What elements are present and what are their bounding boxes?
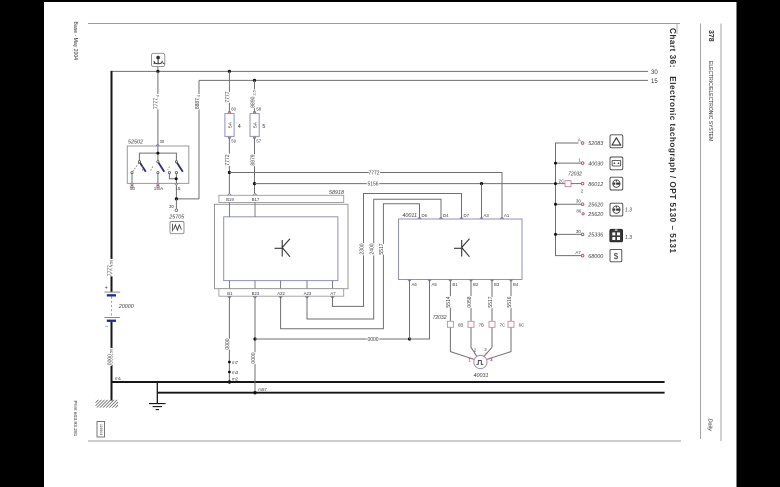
svg-text:A23: A23 <box>304 291 312 296</box>
svg-text:−: − <box>105 324 109 330</box>
wire 7777-4 rail30 to switch <box>157 71 159 146</box>
svg-text:m3: m3 <box>232 370 239 375</box>
switch internal bus <box>139 153 176 161</box>
connector square 2C <box>565 181 571 187</box>
svg-text:+: + <box>105 285 108 291</box>
svg-text:58: 58 <box>256 106 261 111</box>
node m2 <box>228 380 231 383</box>
switch internal feed wire <box>157 146 159 153</box>
58918 bottom pin strip <box>219 289 344 297</box>
wire pin15 junction to 8887 <box>176 198 199 200</box>
svg-text:B17: B17 <box>252 197 260 202</box>
svg-text:8879: 8879 <box>250 154 256 165</box>
58918 K symbol <box>275 239 291 257</box>
svg-text:1.3: 1.3 <box>625 207 632 213</box>
wire B23 to ground bus <box>254 296 256 393</box>
svg-text:30: 30 <box>169 204 174 209</box>
svg-text:A6: A6 <box>412 282 418 287</box>
branch 25336 <box>556 233 582 235</box>
page bottom rule <box>88 440 681 442</box>
junction B23/0000 branch <box>253 337 256 340</box>
40011 top carets <box>418 217 504 219</box>
svg-text:1: 1 <box>578 158 581 163</box>
svg-text:40011: 40011 <box>402 213 417 219</box>
fuse 5 <box>250 106 265 143</box>
svg-text:6B: 6B <box>458 322 463 327</box>
wire B1 (5514) <box>450 280 473 360</box>
svg-text:B4: B4 <box>513 282 519 287</box>
chart title separator tick <box>676 24 678 35</box>
svg-text:2: 2 <box>474 348 477 353</box>
58918 inner box <box>224 217 338 281</box>
svg-text:86: 86 <box>576 208 581 213</box>
battery ground thick wire lower <box>111 322 113 401</box>
svg-text:5156: 5156 <box>367 181 378 187</box>
wire 0000 horizontal to 40011 A6/A5 <box>255 338 410 340</box>
svg-text:0058: 0058 <box>467 296 473 307</box>
battery feed thick wire upper <box>111 71 113 292</box>
svg-text:52502: 52502 <box>128 140 143 146</box>
wire B3 (5517) <box>484 280 492 357</box>
wire A3 drop <box>481 184 483 219</box>
svg-text:30: 30 <box>160 139 165 144</box>
svg-text:72032: 72032 <box>433 315 447 321</box>
svg-text:6C: 6C <box>519 322 525 327</box>
svg-text:A22: A22 <box>277 291 285 296</box>
58918 top pin strip <box>219 195 344 202</box>
svg-text:D7: D7 <box>464 213 470 218</box>
right column bus <box>556 143 582 256</box>
58918 internal stubs bottom <box>229 281 332 289</box>
wire 7777 rail30 to fuse 4 <box>228 71 230 112</box>
svg-text:7C: 7C <box>500 322 506 327</box>
switch top caret pin 30 <box>156 144 160 146</box>
svg-text:30: 30 <box>576 229 581 234</box>
connector squares 6B 7B 7C 6C <box>447 321 514 327</box>
svg-text:$: $ <box>614 252 619 261</box>
svg-text:m2: m2 <box>232 376 239 381</box>
switch contact circles lower <box>131 172 133 174</box>
svg-text:52083: 52083 <box>588 141 603 147</box>
icon 52083 warning triangle <box>610 135 623 148</box>
svg-text:B1: B1 <box>227 291 233 296</box>
svg-text:5517: 5517 <box>488 296 494 307</box>
wire B2 (0058) <box>471 280 477 357</box>
wire battery icon stub <box>157 67 159 72</box>
junction rail30/icon <box>156 70 159 73</box>
svg-text:ELECTRIC/ELECTRONIC SYSTEM: ELECTRIC/ELECTRONIC SYSTEM <box>707 61 713 141</box>
wire 7772 fuse4 to B19 <box>228 137 230 193</box>
wire B1 to ground bus <box>228 296 230 382</box>
hatched earth ground <box>96 400 119 408</box>
speed sensor 40031 <box>468 347 493 368</box>
svg-text:2C: 2C <box>559 179 565 184</box>
svg-text:A: A <box>578 137 581 142</box>
wire 8879 fuse5 to B17 <box>254 137 256 193</box>
fuse 4 <box>225 106 241 143</box>
svg-text:7777 50: 7777 50 <box>107 260 113 276</box>
svg-text:5A: 5A <box>253 121 259 128</box>
junction switch internal <box>156 152 159 155</box>
svg-text:2: 2 <box>581 189 584 194</box>
svg-text:72032: 72032 <box>568 172 582 178</box>
battery 20000 <box>104 285 120 329</box>
svg-text:D4: D4 <box>443 213 449 218</box>
svg-text:0000: 0000 <box>225 338 231 349</box>
node m7 <box>228 361 231 364</box>
switch pin stubs below <box>131 185 133 187</box>
junction 5156 right column <box>554 182 557 185</box>
svg-text:5516: 5516 <box>507 296 513 307</box>
chassis ground symbol <box>149 404 166 410</box>
switch pin 50 wire <box>131 174 133 184</box>
svg-text:0000 50: 0000 50 <box>107 349 113 365</box>
switch dashed position lines <box>133 163 139 171</box>
svg-text:A7: A7 <box>575 250 581 255</box>
icon 25620 clock <box>610 203 623 216</box>
wire 8887-4 switch pin15 to rail15 <box>198 80 200 198</box>
icon 40030 tachograph display <box>610 157 623 170</box>
branch 40030 <box>556 162 582 164</box>
svg-text:m7: m7 <box>232 360 239 365</box>
switch pin 15 bracket <box>169 174 176 179</box>
figure number box bottom left <box>97 422 105 438</box>
rail 15 <box>199 79 648 81</box>
svg-text:Base - May 2004: Base - May 2004 <box>72 22 78 61</box>
svg-text:5A: 5A <box>227 121 233 128</box>
svg-text:A7: A7 <box>330 291 336 296</box>
svg-text:2400: 2400 <box>370 243 376 254</box>
junction pin15/8887/25705 <box>175 197 178 200</box>
svg-text:7777: 7777 <box>225 91 231 102</box>
svg-text:68000: 68000 <box>588 254 603 260</box>
svg-text:A5: A5 <box>432 282 438 287</box>
svg-text:25620: 25620 <box>587 202 603 208</box>
svg-text:B19: B19 <box>226 197 234 202</box>
ground bus upper line <box>112 381 665 383</box>
wire 5156 horizontal to right column <box>255 183 566 185</box>
40011 K symbol <box>454 239 470 257</box>
wire switch pin15 down <box>175 185 177 199</box>
wire A5 down to 0000 <box>410 280 430 340</box>
wire A22 to D6 (5517) <box>281 204 420 329</box>
junction 0000/A6 <box>408 337 411 340</box>
rail 30 <box>112 70 649 72</box>
wire 8890-2,5 rail15 to fuse 5 <box>254 80 256 112</box>
node m57 <box>253 391 256 394</box>
58918 internal stubs top <box>228 203 230 217</box>
switch bottom carets <box>130 183 134 185</box>
svg-text:8890 2,5: 8890 2,5 <box>250 90 256 107</box>
svg-text:8887 4: 8887 4 <box>195 95 201 109</box>
25705 icon box (MW) <box>170 222 184 234</box>
58918 outer box <box>215 204 349 288</box>
page frame: right black margin bar <box>737 0 780 487</box>
branch 86012 <box>571 183 581 185</box>
svg-text:40031: 40031 <box>474 373 489 379</box>
page frame: left black margin bar <box>0 0 44 487</box>
svg-text:Chart 36: Electronic tachogr: Chart 36: Electronic tachograph / OPT 51… <box>668 28 677 253</box>
svg-text:378: 378 <box>707 30 714 42</box>
svg-text:B23: B23 <box>252 291 260 296</box>
page top rule <box>88 23 680 25</box>
svg-text:7B: 7B <box>479 322 484 327</box>
junction rail30/7777 fuse feed <box>228 70 231 73</box>
svg-text:50: 50 <box>130 186 136 191</box>
svg-text:25336: 25336 <box>587 233 603 239</box>
svg-text:15/A: 15/A <box>154 186 164 191</box>
svg-text:2300: 2300 <box>359 243 365 254</box>
branch 25620 <box>556 203 582 205</box>
svg-text:7772: 7772 <box>225 154 231 165</box>
svg-text:5: 5 <box>262 124 265 130</box>
svg-text:3: 3 <box>484 347 487 352</box>
svg-text:Print 603.93.281: Print 603.93.281 <box>72 401 78 437</box>
svg-text:A1: A1 <box>504 213 510 218</box>
junction 8879/5156 branch <box>253 182 256 185</box>
25705 pin circle <box>175 209 178 212</box>
header column rule right <box>720 24 722 442</box>
svg-text:59: 59 <box>231 139 236 144</box>
58918 top carets <box>228 193 232 195</box>
icon 86012 clock <box>610 177 623 190</box>
svg-text:A3: A3 <box>484 213 490 218</box>
svg-text:5517: 5517 <box>379 243 385 254</box>
svg-text:4: 4 <box>238 124 241 130</box>
svg-text:m1: m1 <box>115 376 122 381</box>
wire to 25705 <box>175 199 177 209</box>
svg-text:119304: 119304 <box>99 424 103 435</box>
junction rail15/8890 fuse feed <box>253 79 256 82</box>
svg-text:20000: 20000 <box>118 304 134 310</box>
svg-text:25705: 25705 <box>168 215 185 221</box>
svg-text:30: 30 <box>576 199 581 204</box>
wire A23 to D4 (2400) <box>307 199 441 319</box>
page frame: top black strip <box>0 0 780 2</box>
svg-text:Daily: Daily <box>707 419 713 433</box>
wire B4 (5516) <box>487 280 511 360</box>
ground bus lower line <box>157 392 664 394</box>
svg-text:7772: 7772 <box>368 170 379 176</box>
ignition switch 52502 box <box>127 146 189 183</box>
switch contact circles upper <box>138 161 140 163</box>
svg-text:4: 4 <box>490 358 493 363</box>
battery feed icon box <box>152 53 165 66</box>
svg-text:1.3: 1.3 <box>625 235 632 241</box>
header column rule left <box>700 24 702 440</box>
svg-text:m57: m57 <box>258 387 267 392</box>
svg-text:86012: 86012 <box>588 182 603 188</box>
40011 bottom carets <box>408 280 513 282</box>
svg-text:57: 57 <box>256 139 261 144</box>
svg-text:40030: 40030 <box>588 161 603 167</box>
svg-text:30: 30 <box>651 70 658 76</box>
svg-text:15: 15 <box>651 79 658 85</box>
junction 7772 branch <box>228 171 231 174</box>
svg-text:B3: B3 <box>494 282 500 287</box>
switch contact blades (blue) <box>140 163 146 172</box>
svg-text:B1: B1 <box>452 282 458 287</box>
icon 25336 fuse box <box>610 229 623 242</box>
icon 68000 diagnostic socket <box>610 249 622 261</box>
node m3 <box>228 371 231 374</box>
svg-text:5514: 5514 <box>446 296 452 307</box>
wire 7772 horizontal to A1 <box>229 173 502 220</box>
wire A7 to D7 (2300) <box>333 194 462 307</box>
svg-text:7777 4: 7777 4 <box>154 95 160 109</box>
svg-text:0000: 0000 <box>367 337 378 343</box>
svg-text:D6: D6 <box>422 213 428 218</box>
chassis ground drop wire <box>156 382 158 404</box>
wire A6 down <box>409 280 411 340</box>
svg-text:B2: B2 <box>473 282 479 287</box>
junction 5156/A3 <box>480 182 483 185</box>
58918 bottom carets <box>228 296 335 298</box>
tachograph 40011 box <box>399 219 523 280</box>
svg-text:60: 60 <box>231 106 236 111</box>
svg-text:25620: 25620 <box>587 212 603 218</box>
svg-text:0000: 0000 <box>251 352 257 363</box>
switch pin 15/A wire <box>157 174 159 184</box>
